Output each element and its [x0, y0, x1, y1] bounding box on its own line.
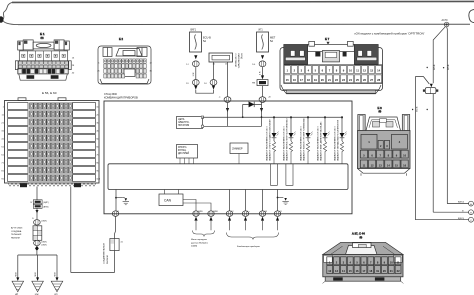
svg-text:ПИТАНИЯ: ПИТАНИЯ [178, 124, 189, 127]
ground 2 [32, 281, 44, 292]
connector E3 base [358, 169, 410, 174]
svg-text:ИНДИКАТОР НЕИСПРАВНОСТИ СИСТ.: ИНДИКАТОР НЕИСПРАВНОСТИ СИСТ. [300, 126, 303, 161]
svg-text:21: 21 [390, 269, 393, 273]
wire buzzer to board [238, 154, 240, 164]
svg-text:ИНДИКАТОР НЕИСПРАВНОСТИ СИСТ.: ИНДИКАТОР НЕИСПРАВНОСТИ СИСТ. [283, 126, 286, 161]
svg-text:«Об модели с комбинацией прибо: «Об модели с комбинацией приборов ‘OPTIT… [354, 32, 425, 36]
harness band right capsule [469, 10, 474, 23]
wire to ground 2 [37, 255, 39, 278]
wire to connector [36, 210, 39, 213]
wire from AC70 right line [446, 27, 449, 204]
svg-text:ИНДИКАТОР НЕИСПРАВНОСТИ СИСТ.: ИНДИКАТОР НЕИСПРАВНОСТИ СИСТ. [266, 126, 269, 161]
svg-text:Е 7: Е 7 [325, 37, 330, 41]
svg-text:18: 18 [307, 78, 310, 82]
indicator LED branch 5 [341, 116, 343, 118]
svg-text:25: 25 [356, 78, 359, 82]
wire meter pin2 internal [260, 108, 263, 112]
svg-text:14: 14 [342, 269, 345, 273]
svg-text:AC70: AC70 [442, 19, 449, 22]
svg-text:ИГ1: ИГ1 [259, 30, 264, 32]
connector E7 pins [284, 65, 382, 84]
wire harness band top line [12, 1, 474, 2]
ground internal right [284, 198, 287, 201]
svg-text:ИММОБИЛАЙЗ.: ИММОБИЛАЙЗ. [237, 54, 240, 69]
wire meter pin41 up [115, 216, 117, 231]
svg-text:(ЦИР): (ЦИР) [43, 202, 49, 204]
LED bus [203, 116, 343, 118]
wire noise filter to meter [262, 86, 264, 97]
svg-text:23: 23 [342, 78, 345, 82]
connector E1 [15, 32, 71, 80]
diode [243, 103, 262, 105]
brace instrument lighting [227, 233, 279, 240]
svg-text:КОМБИНАЦИЯ ПРИБОРОВ: КОМБИНАЦИЯ ПРИБОРОВ [104, 96, 138, 100]
wire middle line down [432, 94, 434, 213]
wire left line [416, 77, 469, 220]
svg-text:16: 16 [293, 78, 296, 82]
svg-text:CAN: CAN [164, 199, 172, 203]
svg-text:А 37, С 44: А 37, С 44 [352, 232, 365, 236]
svg-text:13: 13 [370, 69, 373, 73]
arrow into junction connector [430, 84, 433, 88]
svg-text:ТЕЛЬНЫЙ: ТЕЛЬНЫЙ [11, 233, 22, 236]
svg-text:данных Multiplex: данных Multiplex [191, 241, 209, 244]
svg-text:РАЗЪЕМ: РАЗЪЕМ [11, 237, 20, 240]
svg-text:4.+: 4.+ [247, 211, 250, 213]
resistor pack [33, 200, 42, 204]
svg-text:12: 12 [363, 69, 366, 73]
connector ring A [34, 220, 41, 225]
connector 1J [192, 61, 199, 67]
junction connector 2pin [425, 88, 436, 94]
svg-text:18: 18 [369, 269, 372, 273]
svg-text:13: 13 [335, 269, 338, 273]
svg-text:W-B: W-B [15, 272, 17, 277]
meter internal board box [108, 164, 348, 190]
connector 14 [210, 80, 217, 86]
buzzer box [230, 143, 248, 154]
svg-text:В(ЖО): В(ЖО) [458, 218, 464, 220]
svg-text:ИНДИКАТОР НЕИСПРАВНОСТИ СИСТ.: ИНДИКАТОР НЕИСПРАВНОСТИ СИСТ. [317, 126, 320, 161]
meter bottom pin ТС [226, 211, 232, 217]
svg-text:4 R: 4 R [260, 71, 262, 75]
svg-text:14: 14 [377, 69, 380, 73]
svg-text:СТАЦ 3300: СТАЦ 3300 [104, 93, 118, 96]
svg-text:ЦЕПЬ: ЦЕПЬ [178, 119, 185, 121]
svg-text:ИНДИКАТОР НЕПРИСТЕГНУТЫХ РЕМНЕ: ИНДИКАТОР НЕПРИСТЕГНУТЫХ РЕМНЕЙ БЕЗ [286, 118, 289, 161]
ground internal left [123, 197, 125, 199]
wires display to board [179, 158, 181, 164]
connector 13 [192, 80, 199, 86]
terminal ring A [469, 201, 474, 206]
multi function display box [177, 145, 198, 159]
wires CAN to pins [183, 200, 196, 212]
svg-text:ИНДИКАТОР ЗАРЯДКИ АККУМ. БАТАР: ИНДИКАТОР ЗАРЯДКИ АККУМ. БАТАРЕИ ГЕН [337, 119, 340, 161]
wire 1W [195, 67, 197, 80]
svg-text:Е 56, Е 60: Е 56, Е 60 [42, 91, 57, 95]
connector E3 pins [360, 134, 408, 167]
brace multiplex [193, 231, 215, 237]
svg-text:15: 15 [286, 78, 289, 82]
connector pin on meter top 2 [259, 97, 266, 103]
connector A37 C44 [323, 232, 403, 255]
svg-text:СМ98: СМ98 [213, 211, 218, 213]
svg-text:1J: 1J [186, 64, 188, 66]
svg-text:(В): (В) [360, 237, 363, 239]
terminal ring B [469, 210, 474, 215]
connector ring B [34, 240, 41, 245]
svg-text:15: 15 [349, 269, 352, 273]
svg-text:1G: 1G [252, 64, 255, 66]
svg-text:11: 11 [397, 260, 400, 264]
splice diamond [35, 246, 39, 251]
svg-text:Е 2: Е 2 [119, 37, 123, 41]
svg-text:ВХОД: ВХОД [240, 54, 242, 60]
connector 1G [259, 61, 266, 67]
wire AC70 branch to middle line [433, 27, 445, 83]
svg-text:(ОВЛ): (ОВЛ) [41, 245, 47, 247]
indicator LED branch 1 [273, 116, 275, 118]
svg-text:12: 12 [328, 269, 331, 273]
wire stub up [209, 217, 212, 221]
power supply circuit box [177, 117, 203, 129]
wire jumper 13-14 [196, 90, 214, 94]
svg-text:ИНДИКАТОР НИЗКОГО УРОВНЯ ТОПЛИ: ИНДИКАТОР НИЗКОГО УРОВНЯ ТОПЛИВА БАК [303, 117, 306, 161]
svg-text:Е 3: Е 3 [378, 106, 383, 110]
connector E7 [280, 37, 383, 90]
svg-text:5A: 5A [270, 40, 273, 43]
connector E3 body [358, 131, 411, 169]
wire ground split [18, 254, 57, 256]
wire meter pin1 internal [226, 108, 229, 112]
meter bottom pin 41 [112, 211, 118, 217]
wires board to bottom pins [229, 190, 231, 212]
svg-text:ЖО-В: ЖО-В [434, 64, 436, 70]
svg-text:28: 28 [377, 78, 380, 82]
svg-text:СМ99: СМ99 [198, 211, 203, 213]
svg-text:20: 20 [321, 78, 324, 82]
connector A37 C44 body [323, 255, 403, 277]
wire stub up [276, 217, 279, 221]
svg-text:ИНДИКАТОР ОТКРЫТОЙ ДВЕРИ САЛОН: ИНДИКАТОР ОТКРЫТОЙ ДВЕРИ САЛОНА АВТ [269, 118, 272, 161]
meter bottom pin ЧФ [259, 211, 265, 217]
svg-text:5A: 5A [203, 40, 206, 43]
dot junction right pin wire [277, 197, 279, 199]
svg-text:22: 22 [397, 269, 400, 273]
board slot 1 [271, 164, 278, 186]
svg-text:10: 10 [390, 260, 393, 264]
wire to ground 1 [17, 255, 19, 278]
svg-text:ДИСПЛЕЙ: ДИСПЛЕЙ [178, 152, 190, 155]
svg-text:19: 19 [314, 78, 317, 82]
svg-text:ECU-B: ECU-B [203, 37, 211, 40]
connector A37 C44 base [323, 277, 404, 284]
svg-text:ЭЛЕКТРО-: ЭЛЕКТРО- [178, 122, 190, 124]
wires board to CAN [164, 190, 166, 195]
wire diode branch down [242, 104, 244, 117]
junction block [209, 53, 233, 62]
svg-text:ИНДИКАТОР АВАР. ДАВЛЕНИЯ МАСЛА: ИНДИКАТОР АВАР. ДАВЛЕНИЯ МАСЛА ДВС [320, 121, 323, 161]
svg-text:22: 22 [335, 78, 338, 82]
svg-text:В(ЖО): В(ЖО) [458, 202, 464, 204]
svg-text:РАЗЪЕМ: РАЗЪЕМ [106, 255, 109, 264]
meter bottom pin СМ99 [193, 211, 199, 217]
terminal ring C [469, 217, 474, 222]
board slot 2 [286, 164, 293, 186]
svg-text:17: 17 [362, 269, 365, 273]
svg-text:16: 16 [356, 269, 359, 273]
wire power D line [203, 125, 262, 127]
wire fuse MET down [261, 55, 264, 59]
svg-text:СОЕДИНА: СОЕДИНА [11, 230, 22, 233]
svg-text:ЖО-В: ЖО-В [416, 106, 418, 112]
meter bottom pin СО [274, 211, 280, 217]
svg-text:11: 11 [356, 69, 359, 73]
svg-text:97: 97 [30, 202, 32, 204]
svg-text:Шина передачи: Шина передачи [191, 239, 208, 241]
svg-text:21: 21 [328, 78, 331, 82]
ground 3 [51, 281, 63, 292]
svg-text:(М): (М) [41, 37, 44, 39]
connector E7 base [281, 85, 381, 94]
connector E56 E60 100-pin [5, 98, 100, 187]
svg-text:ИНДИКАТОР НЕИСПРАВНОСТИ СИСТ.: ИНДИКАТОР НЕИСПРАВНОСТИ СИСТ. [334, 126, 337, 161]
wire pin to resistor pack [36, 187, 38, 200]
connector pin on meter top 1 [224, 97, 231, 103]
svg-text:С СИСТЕМОЙ: С СИСТЕМОЙ [234, 54, 237, 68]
harness band left end curve [3, 2, 18, 24]
svg-text:(В): (В) [379, 111, 382, 113]
svg-text:19: 19 [376, 269, 379, 273]
svg-text:СОЕДИНИТЕЛЬНЫЙ: СОЕДИНИТЕЛЬНЫЙ [102, 243, 105, 264]
wire 4R [262, 67, 264, 76]
wire board to pin 41 [115, 190, 117, 212]
wire harness band bottom line [18, 23, 470, 25]
svg-text:W-B: W-B [55, 272, 57, 277]
svg-text:ФУНКЦ.: ФУНКЦ. [178, 149, 187, 152]
wire to ground 3 [56, 255, 58, 278]
joint connector 2 [110, 239, 119, 251]
svg-text:26: 26 [363, 78, 366, 82]
svg-text:17: 17 [300, 78, 303, 82]
joint connector [33, 226, 42, 241]
svg-text:24: 24 [349, 78, 352, 82]
svg-text:ВАТ1: ВАТ1 [191, 29, 197, 32]
meter bottom pin 4.+ [242, 211, 248, 217]
wire smart box pin 15 down [227, 62, 229, 97]
svg-text:W-B: W-B [35, 272, 37, 277]
indicator LED branch 3 [307, 116, 309, 118]
svg-text:АУТЛ СМ03: АУТЛ СМ03 [11, 226, 23, 229]
svg-text:(ВНЗ): (ВНЗ) [43, 207, 48, 209]
wire fuse ECU-B to connector 1J [194, 55, 197, 59]
svg-text:ЗУММЕР: ЗУММЕР [232, 148, 243, 151]
wire 14 to smart box pin 16 [213, 62, 215, 79]
svg-text:ЖО-В: ЖО-В [448, 64, 450, 70]
svg-text:27: 27 [370, 78, 373, 82]
indicator LED branch 2 [290, 116, 292, 118]
svg-text:20: 20 [383, 269, 386, 273]
meter bottom pin СМ98 [208, 211, 214, 217]
CAN box [159, 194, 183, 206]
connector E2 [98, 37, 151, 84]
svg-text:МНОГО-: МНОГО- [178, 147, 187, 149]
connector E3 [358, 106, 410, 132]
wire stub up [228, 217, 231, 221]
svg-text:(ОВЛ): (ОВЛ) [41, 220, 47, 222]
svg-text:НФ: НФ [252, 82, 256, 85]
svg-text:(ОВЛ): (ОВЛ) [41, 241, 47, 243]
wire right line to terminal [447, 203, 468, 205]
svg-text:Комбинация приборов: Комбинация приборов [237, 246, 261, 248]
svg-text:41: 41 [117, 211, 119, 213]
svg-text:MET: MET [270, 37, 276, 40]
wire stub up [244, 217, 247, 221]
noise filter [261, 75, 264, 79]
ground 1 [12, 281, 24, 292]
svg-text:Е 1: Е 1 [40, 32, 45, 36]
wire stub up [261, 217, 264, 221]
svg-text:10: 10 [349, 69, 352, 73]
wire stub up [194, 217, 197, 221]
indicator LED branch 4 [324, 116, 326, 118]
connector A37 C44 pins [327, 257, 401, 274]
wire meter pin41 chain [70, 187, 72, 273]
svg-text:(CAN): (CAN) [191, 245, 197, 248]
